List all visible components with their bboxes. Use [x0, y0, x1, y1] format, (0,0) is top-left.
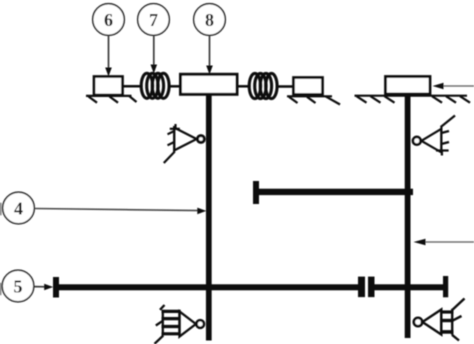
callout 6 — [93, 4, 125, 36]
scan artifact left edge near callout 4 — [0, 203, 2, 216]
wire box to spring 7 — [123, 85, 142, 88]
scan artifact left edge near callout 5 — [0, 283, 2, 295]
callout 7 — [138, 4, 170, 36]
callout 8 — [194, 4, 226, 36]
svg-text:8: 8 — [205, 10, 214, 30]
wire mass rect to spring (right) — [237, 85, 250, 88]
wire spring to right box — [277, 85, 294, 88]
svg-text:7: 7 — [149, 10, 158, 30]
ground under left box — [86, 96, 137, 103]
spring right (coil) — [249, 73, 277, 98]
leader arrow 4 — [35, 208, 207, 215]
upper gear line on shaft 2 — [253, 181, 413, 204]
mass rect on shaft 2 — [386, 77, 431, 95]
leader arrow 8 — [206, 36, 213, 75]
bearing on shaft 1 upper — [164, 124, 205, 163]
callout 5 — [2, 270, 34, 302]
spring 7 (coil) — [141, 73, 169, 98]
ground line under shaft-2 rect — [355, 96, 471, 103]
leader arrow 5 — [34, 284, 53, 291]
bearing on shaft 2 lower (rolling) — [414, 299, 465, 341]
arrow from right edge to shaft-2 rect — [433, 83, 474, 89]
box (mass) right — [294, 78, 323, 95]
callout 4 — [3, 192, 35, 224]
leader arrow 6 — [105, 36, 112, 77]
bearing on shaft 2 upper — [413, 116, 455, 156]
wire spring 7 to mass rect — [169, 85, 181, 88]
lower gear shaft line (item 5) — [53, 276, 448, 298]
bearing on shaft 1 lower (rolling) — [155, 305, 205, 344]
mass rect on shaft 1 (item 8) — [181, 74, 238, 94]
svg-text:5: 5 — [14, 277, 23, 297]
shaft 2 (vertical) — [405, 94, 411, 338]
leader arrow 7 — [151, 36, 158, 74]
box (mass) left of spring 7 — [94, 77, 123, 96]
ground under right box — [287, 96, 340, 104]
shaft 1 (vertical) — [206, 94, 212, 341]
svg-text:4: 4 — [14, 199, 23, 219]
arrow from right edge to shaft 2 (mid) — [414, 239, 474, 246]
svg-text:6: 6 — [104, 10, 113, 30]
